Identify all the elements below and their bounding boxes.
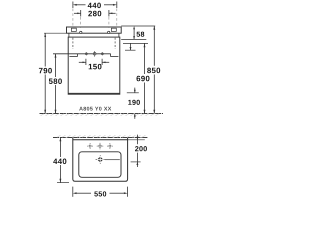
wall line with hatch bbox=[53, 137, 148, 139]
ext 440 bottom bbox=[57, 182, 69, 184]
wall brackets on rim bbox=[71, 28, 116, 31]
drain symbol bbox=[97, 157, 103, 163]
dim 440 (plan) bbox=[59, 138, 61, 183]
dim 550 bbox=[73, 187, 128, 197]
dim 580 bbox=[55, 54, 57, 114]
ext basin back edge to right bbox=[128, 139, 145, 141]
dim 58 bbox=[133, 29, 135, 40]
dim 150 bbox=[79, 59, 109, 65]
washbasin rim (front view) bbox=[67, 27, 122, 33]
extension line y39.4 bbox=[121, 38, 146, 40]
extension verticals from top dims to basin bbox=[73, 9, 117, 28]
floor line with hatch bbox=[40, 113, 164, 115]
drain symbols bbox=[85, 52, 103, 55]
dim 850 bbox=[153, 26, 155, 114]
basin back edge bbox=[73, 139, 128, 141]
product code bbox=[79, 107, 111, 111]
hidden dashed fixing lines bbox=[73, 38, 115, 49]
vanity cabinet bbox=[68, 37, 120, 94]
overflow channel line bbox=[105, 159, 120, 161]
small ext with arrow bbox=[125, 49, 136, 51]
fixing hole circles bbox=[80, 31, 110, 33]
dim 280 bbox=[74, 10, 116, 17]
ext drain level right bbox=[131, 161, 141, 163]
dim 190 bbox=[127, 92, 139, 94]
right extension line (basin top) bbox=[121, 25, 155, 27]
left extension line (rim bottom) bbox=[44, 32, 67, 34]
inner bowl bbox=[79, 152, 121, 178]
tap hole marks bbox=[88, 144, 112, 148]
dim 790 bbox=[44, 33, 46, 113]
extension line y43.4 bbox=[123, 42, 148, 44]
basin skirt sides bbox=[69, 33, 119, 37]
dim 200 bbox=[136, 135, 138, 167]
dim 690 bbox=[144, 43, 146, 113]
dim 440 top bbox=[73, 2, 117, 9]
drain line inside cabinet bbox=[53, 54, 118, 57]
basin outer shape (plan) bbox=[73, 138, 128, 182]
